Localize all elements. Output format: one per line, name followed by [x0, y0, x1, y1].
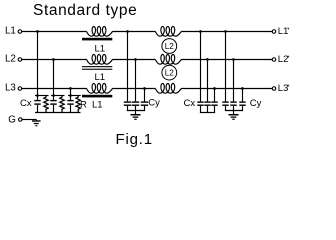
node dot Cy tap 2 — [134, 58, 137, 61]
node dot Cy tap 1 — [126, 30, 129, 33]
svg-text:Standard type: Standard type — [33, 2, 137, 19]
wire vertical tap line1 to Cx branch 1 — [37, 32, 39, 96]
wire Cy2 bottom bus — [225, 110, 243, 112]
capacitor Cx2 — [53, 96, 55, 100]
svg-text:R: R — [80, 99, 87, 110]
wire line3 segment 2 — [112, 88, 155, 90]
wire line2 segment 3 — [181, 59, 272, 61]
wire line1 segment 1 — [22, 31, 87, 33]
svg-text:Fig.1: Fig.1 — [116, 131, 153, 148]
capacitor Cx3 — [211, 101, 217, 102]
wire Cx star-point rail — [35, 112, 81, 114]
inductor L2 winding (line 2) — [155, 55, 181, 65]
capacitor Cx1 — [197, 101, 203, 102]
node dot Cx tap 3 — [213, 87, 216, 90]
label L2 circle (lower) — [162, 65, 177, 80]
wire Cx bottom bus — [200, 112, 215, 114]
ground (right Cy) — [229, 114, 239, 116]
wire line3 segment 3 — [181, 88, 272, 90]
terminal G circle — [19, 118, 23, 122]
wire branch 3 top bar — [68, 95, 81, 97]
node dot branch 1 top — [36, 94, 39, 97]
wire line1 segment 3 — [181, 31, 272, 33]
node dot line3/Cx tap — [69, 87, 72, 90]
inductor L1 core (line 3) — [82, 95, 112, 98]
svg-text:L1: L1 — [95, 72, 106, 83]
resistor R1 — [44, 96, 48, 113]
wire vertical tap to Cy cap 3 — [144, 89, 146, 102]
capacitor Cx3 — [70, 96, 72, 100]
svg-text:L3: L3 — [5, 83, 16, 94]
wire G to ground — [22, 119, 36, 121]
capacitor Cy21 — [222, 101, 228, 102]
svg-text:L2: L2 — [165, 69, 175, 78]
inductor L1 core (line 1) — [82, 38, 112, 41]
terminal L1 circle — [18, 30, 22, 34]
inductor L1 coil (line 2) — [87, 55, 113, 65]
wire vertical tap to Cy cap 1 — [127, 32, 129, 102]
capacitor Cy22 — [230, 101, 236, 102]
svg-text:L2: L2 — [278, 54, 289, 65]
node dot Cy2 tap 2 — [232, 58, 235, 61]
resistor R2 — [60, 96, 64, 113]
wire vertical tap to Cx cap 3 — [214, 89, 216, 102]
svg-text:Cx: Cx — [184, 98, 196, 109]
wire Cy2 stub to ground — [233, 111, 235, 115]
terminal L1&#39; circle — [272, 30, 276, 34]
wire line3 segment 1 — [22, 88, 87, 90]
wire line2 segment 2 — [112, 59, 155, 61]
node dot Cy2 tap 3 — [241, 87, 244, 90]
wire vertical tap to Cy cap 2 — [135, 60, 137, 102]
svg-text:L1: L1 — [5, 26, 16, 37]
svg-text:L1: L1 — [278, 26, 289, 37]
svg-text:Cy: Cy — [250, 98, 262, 109]
capacitor Cy23 — [239, 101, 245, 102]
wire line2 segment 1 — [22, 59, 87, 61]
inductor L2 winding (line 3) — [155, 84, 181, 94]
capacitor Cx1 — [37, 96, 39, 100]
svg-text:L1: L1 — [95, 44, 106, 55]
wire vertical tap to Cx cap 2 — [207, 60, 209, 102]
wire Cy bottom bus — [127, 110, 145, 112]
node dot Cx tap 2 — [206, 58, 209, 61]
capacitor Cy2 — [132, 101, 139, 102]
node dot branch 2 top — [52, 94, 55, 97]
terminal L3 circle — [18, 87, 22, 91]
node dot line1/Cx tap — [36, 30, 39, 33]
svg-text:L2: L2 — [165, 42, 175, 51]
wire branch 1 top bar — [35, 95, 49, 97]
node dot Cy2 tap 1 — [224, 30, 227, 33]
wire vertical tap to Cy2 cap 1 — [225, 32, 227, 102]
capacitor Cy1 — [124, 101, 131, 102]
svg-text:L1: L1 — [92, 99, 103, 110]
inductor L1 coil (line 1) — [87, 27, 113, 37]
ground (G) — [32, 120, 41, 121]
svg-text:L2: L2 — [5, 54, 16, 65]
svg-text:Cx: Cx — [20, 98, 32, 109]
label L2 circle (upper) — [162, 39, 177, 54]
svg-text:Cy: Cy — [148, 98, 160, 109]
node dot Cy tap 3 — [143, 87, 146, 90]
wire branch 2 top bar — [51, 95, 65, 97]
node dot Cx tap 1 — [199, 30, 202, 33]
inductor L1 coil (line 3) — [87, 84, 113, 94]
svg-text:G: G — [8, 114, 16, 125]
svg-text:L3: L3 — [278, 83, 289, 94]
ground (mid Cy) — [131, 114, 141, 116]
wire vertical tap to Cy2 cap 3 — [242, 89, 244, 102]
terminal L3&#39; circle — [272, 87, 276, 91]
wire vertical tap to Cx cap 1 — [200, 32, 202, 102]
capacitor Cy3 — [141, 101, 148, 102]
wire vertical tap to Cy2 cap 2 — [233, 60, 235, 102]
wire vertical tap line3 to Cx branch 3 — [70, 89, 72, 96]
inductor L1 core (line 2) — [82, 66, 112, 67]
terminal L2 circle — [18, 58, 22, 62]
capacitor Cx2 — [204, 101, 210, 102]
terminal L2&#39; circle — [272, 58, 276, 62]
wire line1 segment 2 — [112, 31, 155, 33]
inductor L2 winding (line 1) — [155, 27, 181, 37]
wire Cy stub to ground — [135, 111, 137, 115]
resistor R3 — [76, 96, 80, 113]
node dot line2/Cx tap — [52, 58, 55, 61]
wire vertical tap line2 to Cx branch 2 — [53, 60, 55, 96]
node dot branch 3 top — [69, 94, 72, 97]
